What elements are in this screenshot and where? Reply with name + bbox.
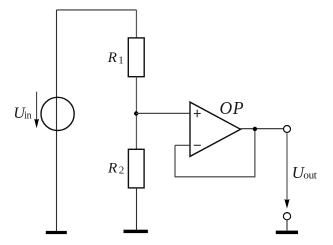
node junction divider xyxy=(134,111,138,115)
svg-text:2: 2 xyxy=(119,165,125,177)
ground under R2 xyxy=(124,230,148,233)
svg-text:R: R xyxy=(107,50,117,66)
terminal output top xyxy=(284,126,291,133)
wire top horizontal xyxy=(57,9,137,11)
wire left vertical xyxy=(56,10,58,231)
resistor R2 xyxy=(128,149,144,188)
U_in arrow xyxy=(34,92,39,129)
resistor R1 xyxy=(128,38,144,77)
wire op-amp output xyxy=(241,128,284,130)
wire junction to op-amp + input xyxy=(136,112,189,114)
wire terminal to ground xyxy=(286,220,288,231)
U_out arrow xyxy=(284,133,289,208)
voltage source U_in circle xyxy=(41,97,74,130)
wire R1 top stub xyxy=(135,10,137,38)
terminal output bottom xyxy=(283,213,290,220)
svg-text:R: R xyxy=(107,160,117,176)
wire - input stub xyxy=(175,144,189,146)
op-amp - input marker xyxy=(194,144,201,146)
wire R1 to R2 xyxy=(135,77,137,150)
wire feedback loop xyxy=(175,129,255,177)
ground under source xyxy=(46,231,67,234)
svg-text:OP: OP xyxy=(220,98,245,118)
ground output xyxy=(276,231,298,235)
svg-text:out: out xyxy=(303,169,316,181)
wire R2 to ground xyxy=(136,188,138,230)
node output junction xyxy=(253,127,257,131)
svg-text:1: 1 xyxy=(118,54,124,66)
op-amp + input marker xyxy=(194,110,201,118)
svg-text:in: in xyxy=(24,110,31,121)
op-amp U1 triangle xyxy=(190,102,241,156)
